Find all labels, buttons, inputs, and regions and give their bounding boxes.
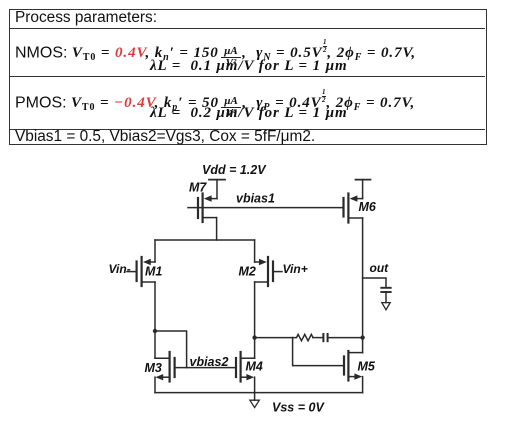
svg-text:vbias2: vbias2 (190, 355, 229, 369)
svg-text:M3: M3 (145, 361, 162, 375)
ground Vss arrow (250, 393, 259, 408)
svg-text:M6: M6 (359, 200, 377, 214)
resistor Rz (compensation) (293, 334, 313, 340)
table row separator 1 (9, 28, 485, 29)
svg-text:Vss = 0V: Vss = 0V (272, 401, 325, 415)
transistor M5 (NMOS) (344, 351, 363, 381)
power Vdd supply T-bar left (209, 180, 225, 199)
table row 4 text (15, 128, 315, 146)
wire out net (M6 drain down to M5 drain) (362, 218, 364, 353)
table row 2 line 2 (150, 57, 348, 75)
node out junction dot (360, 335, 364, 339)
transistor M3 (NMOS diode-connected) (155, 352, 175, 382)
wire Rz to Cc (313, 337, 323, 339)
wire branch to M5 gate (293, 338, 344, 366)
svg-text:Vdd = 1.2V: Vdd = 1.2V (202, 163, 267, 177)
svg-text:M1: M1 (145, 265, 162, 279)
wire M1 drain to node A (154, 282, 156, 358)
node B junction dot (252, 335, 256, 339)
table row 2 line 1 (NMOS) (15, 39, 416, 70)
transistor M4 (NMOS) (236, 352, 255, 382)
wire out to load capacitor (363, 278, 386, 288)
capacitor Cc (compensation) (323, 334, 327, 341)
wire node B to compensation branch (255, 337, 293, 339)
power Vdd supply T-bar right (356, 180, 371, 199)
wire CL to ground (385, 292, 387, 303)
svg-text:vbias1: vbias1 (236, 192, 275, 206)
wire M4 source to Vss rail (254, 377, 256, 392)
transistor M6 (PMOS) (344, 194, 363, 223)
wire M7 drain to tail rail (216, 218, 218, 240)
table row 1 text (15, 9, 157, 27)
wire M2 drain to node B (254, 282, 256, 358)
svg-text:M5: M5 (358, 360, 376, 374)
svg-text:Vin+: Vin+ (283, 262, 308, 276)
wire M3 source to Vss rail (154, 377, 156, 392)
svg-text:M4: M4 (246, 360, 263, 374)
capacitor CL (load) (381, 288, 390, 292)
wire Vss rail (155, 392, 363, 394)
table row separator 3 (9, 129, 485, 130)
wire Cc to out node (328, 337, 363, 339)
wire M5 source to Vss rail (362, 377, 364, 393)
wire vbias1 net (M7 gate to M6 gate) (188, 207, 344, 209)
svg-text:M7: M7 (189, 181, 207, 195)
svg-text:out: out (370, 261, 390, 275)
table: process parameters box (9, 9, 487, 145)
wire node A to M3 gate (diode connection) (155, 331, 187, 368)
transistor M2 (PMOS) (255, 240, 282, 286)
node A junction dot (153, 329, 157, 333)
svg-text:M2: M2 (239, 265, 256, 279)
ground arrow below load capacitor (382, 303, 390, 310)
transistor M7 (PMOS) (198, 194, 217, 223)
table row 3 line 2 (150, 104, 348, 122)
table row 3 line 1 (PMOS) (15, 89, 415, 120)
transistor M1 (PMOS) (127, 240, 155, 286)
svg-text:Vin-: Vin- (109, 262, 131, 276)
wire diff-pair tail rail (155, 239, 255, 241)
wire vbias2 net (M3 gate to M4 gate) (175, 367, 236, 369)
table row separator 2 (9, 76, 485, 77)
